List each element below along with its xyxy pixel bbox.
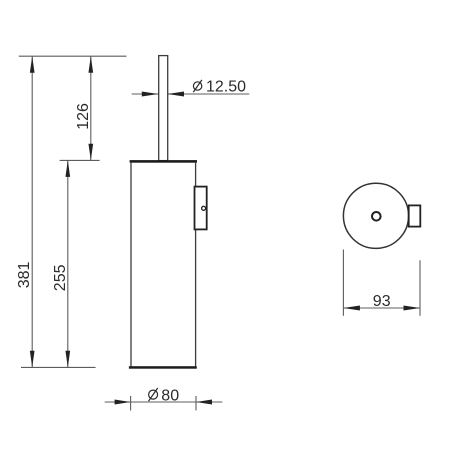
top view tab (bracket) [409,205,421,226]
svg-text:12.50: 12.50 [206,79,246,96]
lid (cylinder top cap) [130,160,197,163]
wall bracket [195,187,207,230]
dimension 381 line [30,56,35,367]
svg-text:93: 93 [373,293,391,310]
svg-text:255: 255 [52,264,69,291]
wire: bottom extension line at cylinder bottom [21,366,96,368]
wire: middle extension line at cylinder top [60,159,100,161]
rod (brush handle) [159,56,168,161]
svg-text:80: 80 [161,387,179,404]
dimension diameter 12.50 line [132,92,250,97]
top view center hole [372,212,381,221]
dimension 126 line [88,56,93,160]
svg-text:126: 126 [75,103,92,130]
dimension diameter 80 [105,396,223,411]
cylinder body [129,163,197,369]
label diameter 12.50 [193,79,246,96]
top view circle [343,183,408,248]
bracket screw hole [202,206,206,210]
svg-text:381: 381 [16,262,33,289]
dimension 255 line [65,160,70,367]
label diameter 80 [149,387,180,404]
wire: top extension line at rod top [19,55,127,57]
dimension 93 [343,250,420,316]
